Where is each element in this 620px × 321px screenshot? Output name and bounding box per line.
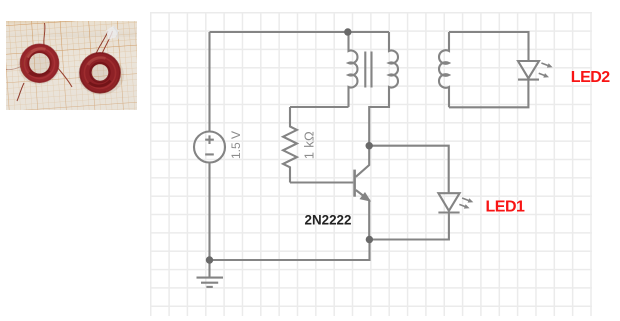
white cable tie (106, 26, 119, 40)
wire battery minus lead (208, 163, 210, 261)
wire LED2 bottom to pickup coil (449, 80, 528, 108)
ground (197, 260, 224, 287)
wire bottom rail ground to emitter node (210, 240, 370, 261)
left coil lead bottom-left (17, 83, 24, 101)
left coil lead left (6, 66, 22, 70)
junction ground node (206, 256, 213, 263)
LED1 (438, 193, 459, 212)
wire battery plus lead (208, 32, 210, 132)
inductor L2 feedback winding (369, 32, 398, 146)
left coil lead up (43, 23, 44, 45)
breadboard photo of two coils (6, 21, 137, 110)
coil shadows (18, 47, 60, 85)
svg-text:1.5 V: 1.5 V (229, 131, 243, 159)
inductor L3 pickup coil (439, 32, 449, 107)
inductor L1 primary winding (349, 32, 358, 107)
junction emitter node (366, 236, 373, 243)
graph paper background (6, 21, 137, 110)
battery V1 1.5 V (194, 132, 225, 163)
wire resistor bottom to base (290, 181, 353, 183)
wire collector node to LED1 (369, 146, 449, 194)
left coil lead right-down (57, 67, 72, 87)
resistor R1 1 kOhm (283, 107, 297, 183)
svg-text:LED2: LED2 (571, 69, 611, 86)
LED2 light ray arrows (538, 61, 554, 80)
wire pickup loop top to LED2 (449, 32, 529, 61)
svg-text:LED1: LED1 (486, 198, 526, 215)
wire top rail to secondary winding (348, 31, 389, 33)
junction top node (344, 28, 351, 35)
junction collector node (366, 142, 373, 149)
svg-text:2N2222: 2N2222 (305, 212, 352, 227)
left coil of magnet wire (20, 44, 58, 82)
transformer core (365, 52, 371, 88)
transistor Q1 2N2222 (355, 146, 370, 240)
LED1 light ray arrows (458, 196, 474, 211)
svg-text:1 kΩ: 1 kΩ (302, 131, 317, 159)
wire top rail from battery to transformer (210, 31, 348, 33)
right coil leads up to white tie (96, 31, 108, 54)
right coil of magnet wire (80, 53, 120, 93)
schematic grid background (150, 12, 592, 315)
wire LED1 bottom to emitter node (370, 213, 449, 240)
wire primary to resistor top (290, 106, 349, 108)
LED2 (518, 61, 539, 80)
